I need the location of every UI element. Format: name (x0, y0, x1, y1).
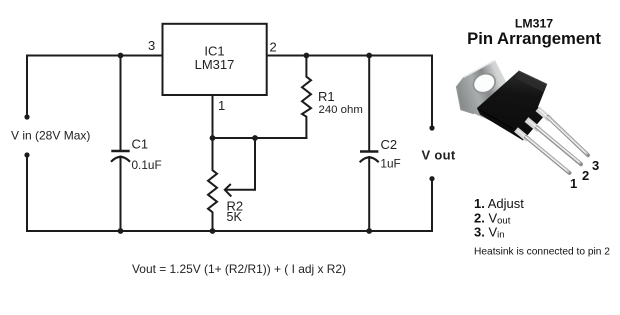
svg-text:Vout = 1.25V (1+ (R2/R1)) + (: Vout = 1.25V (1+ (R2/R1)) + ( I adj x R2… (132, 262, 346, 276)
svg-text:C2: C2 (381, 137, 398, 152)
terminal: V out upper (429, 125, 434, 130)
wire: IC pin 1 down to adjust node (212, 95, 214, 138)
svg-text:1: 1 (218, 98, 225, 113)
wire: V in (-) terminal down to bottom rail (26, 155, 28, 231)
svg-text:2: 2 (582, 168, 589, 183)
wire: C1 top lead (120, 56, 122, 152)
wire: C2 top lead (368, 56, 370, 152)
capacitor C2 straight plate (361, 150, 377, 152)
wire: V in (+) terminal up to top rail and right to IC pin 3 (27, 56, 163, 118)
node: C2 / bottom rail junction (366, 228, 372, 234)
TO-220 package: mounting hole (470, 70, 498, 96)
terminal: V in lower (24, 152, 29, 157)
capacitor C1 straight plate (113, 150, 129, 152)
resistor R1 (240 ohm) zigzag with leads (302, 56, 311, 139)
svg-text:1. Adjust: 1. Adjust (474, 196, 524, 211)
svg-text:3. Vin: 3. Vin (474, 225, 505, 241)
svg-text:0.1uF: 0.1uF (132, 158, 162, 172)
capacitor C2 curved plate (361, 157, 378, 161)
TO-220 package: leg 1 (Adjust) (516, 130, 570, 174)
wire: C2 bottom lead (368, 157, 370, 231)
node: C1 / bottom rail junction (118, 228, 124, 234)
node: R2 / bottom rail junction (210, 228, 216, 234)
node: R1 / top rail junction (304, 53, 310, 59)
svg-text:3: 3 (592, 158, 599, 173)
svg-text:LM317: LM317 (195, 57, 235, 72)
wire: bottom rail (27, 230, 432, 232)
wire: C1 bottom lead (120, 157, 122, 232)
svg-text:R1: R1 (318, 89, 335, 104)
svg-text:1uF: 1uF (380, 157, 400, 171)
svg-text:3: 3 (148, 38, 155, 53)
svg-text:1: 1 (570, 176, 577, 191)
IC1 LM317 regulator box (163, 24, 267, 95)
wire: top rail right from IC pin 2 to V out branch (267, 56, 432, 129)
wiper arrowhead (225, 184, 232, 197)
terminal: V out lower (429, 176, 434, 181)
svg-text:5K: 5K (227, 210, 243, 224)
TO-220 package: leg 2 (Vout) (527, 120, 582, 165)
TO-220 package: plastic body (top face, front face, left side face) (477, 71, 547, 141)
svg-text:2: 2 (270, 40, 277, 55)
svg-text:Pin Arrangement: Pin Arrangement (467, 29, 601, 48)
svg-text:Heatsink is connected to pin 2: Heatsink is connected to pin 2 (474, 247, 610, 258)
node: wiper junction (252, 135, 258, 141)
terminal: V in upper (24, 114, 29, 119)
svg-text:240 ohm: 240 ohm (319, 104, 363, 116)
wire: V out lower terminal down to bottom rail (431, 179, 433, 231)
TO-220 package: leg 3 (Vin) (538, 109, 589, 155)
svg-text:C1: C1 (132, 137, 149, 152)
capacitor C1 curved plate (112, 157, 129, 161)
node: C2 / top rail junction (366, 53, 372, 59)
node: C1 / top rail junction (118, 53, 124, 59)
node: adjust / R2 junction (210, 135, 216, 141)
wiper wire of R2 with arrow (226, 138, 255, 190)
svg-text:V out: V out (422, 148, 456, 163)
resistor R2 (5K pot) zigzag with leads (208, 138, 217, 231)
TO-220 package: metal tab (457, 60, 517, 125)
svg-text:V in (28V Max): V in (28V Max) (11, 129, 90, 143)
wire: adjust node link to R1 bottom (213, 137, 307, 139)
